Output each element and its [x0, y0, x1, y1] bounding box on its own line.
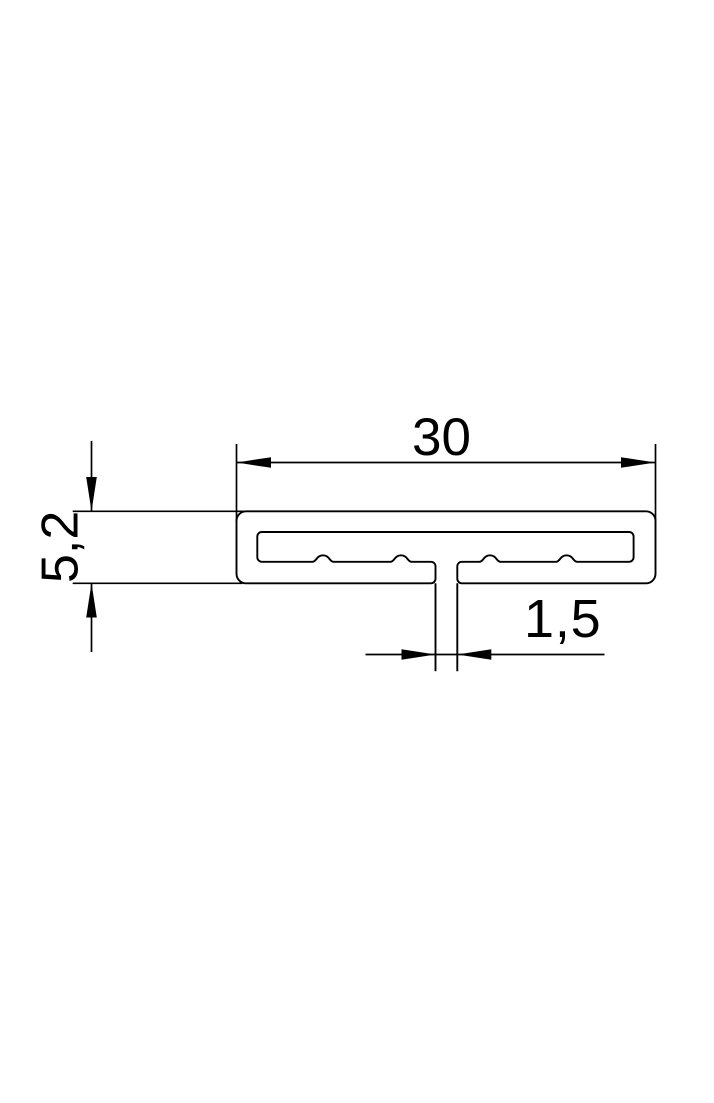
dimension 5,2: extension lines: [73, 510, 246, 512]
leg right wall: [456, 583, 458, 671]
leg left wall: [435, 583, 437, 671]
dimension 5,2: bottom arrowhead (points up): [86, 583, 97, 617]
dimension 30: dimension line: [237, 462, 656, 464]
dimension 5,2: top arrowhead (points down): [86, 477, 97, 511]
dimension 1,5: left arrowhead (points right): [402, 649, 436, 660]
dimension 1,5: right arrowhead (points left): [457, 649, 491, 660]
dimension 1,5: dimension line: [366, 654, 605, 656]
svg-text:5,2: 5,2: [32, 511, 90, 583]
dimension 30: extension lines: [236, 444, 238, 521]
profile outline: 30x5.2 hollow flat bar with center fin, outer and cavity contour: [237, 511, 656, 583]
svg-text:1,5: 1,5: [524, 589, 601, 649]
svg-text:30: 30: [412, 408, 471, 467]
dimension 5,2: dimension line segments: [91, 441, 93, 511]
dimension 30: left arrowhead: [237, 457, 272, 468]
dimension 30: right arrowhead: [621, 457, 656, 468]
